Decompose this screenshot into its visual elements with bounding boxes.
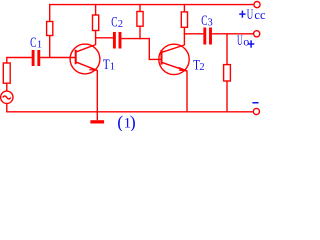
- wire RL to rail: [226, 81, 228, 113]
- wire T1 collector up: [95, 37, 97, 45]
- wire top +Ucc rail: [49, 4, 253, 6]
- capacitor C1 right plate: [37, 50, 40, 66]
- svg-text:1: 1: [37, 40, 42, 51]
- wire R3 top lead: [139, 4, 141, 12]
- capacitor C1 left plate: [32, 50, 35, 66]
- svg-text:C: C: [111, 14, 117, 30]
- transistor T1 emitter diagonal: [76, 62, 97, 70]
- transistor T2 emitter arrow: [179, 68, 188, 71]
- wire T2 collector up: [183, 33, 185, 45]
- wire source to rail: [6, 104, 8, 113]
- transistor T2 collector diagonal: [162, 45, 184, 52]
- wire R4 top lead: [183, 4, 185, 12]
- ground bar: [90, 120, 104, 123]
- svg-text:(: (: [117, 112, 123, 131]
- wire C3 to Uo terminal: [212, 33, 253, 35]
- wire rail corner to R1: [49, 4, 51, 22]
- svg-text:3: 3: [208, 18, 213, 29]
- svg-text:U: U: [237, 33, 243, 49]
- resistor Rs: [3, 63, 10, 83]
- transistor T1 circle: [70, 44, 100, 74]
- svg-text:o: o: [243, 35, 249, 49]
- terminal output negative: [253, 108, 259, 114]
- wire R1 to base node: [49, 36, 51, 59]
- wire C2 to elbow: [121, 39, 161, 60]
- transistor T1 collector diagonal: [76, 45, 95, 52]
- resistor RL: [224, 65, 231, 81]
- wire T2 emitter down: [186, 71, 188, 113]
- wire T1 emitter down: [96, 70, 98, 120]
- wire output node to C3: [184, 33, 203, 35]
- wire R3 to T2 base node: [139, 26, 141, 39]
- wire input node to C1: [7, 57, 32, 59]
- resistor R2: [93, 15, 99, 31]
- transistor T1 base bar: [75, 50, 77, 64]
- resistor R1: [47, 22, 53, 36]
- wire source branch top: [6, 57, 8, 63]
- wire R2 top lead: [95, 4, 97, 15]
- svg-text:cc: cc: [254, 8, 266, 22]
- source V1 sine: [3, 96, 11, 99]
- source V1 circle: [1, 91, 13, 103]
- label plus of Uo: [248, 40, 254, 47]
- terminal Uo: [254, 31, 260, 37]
- label plus of Ucc: [239, 11, 245, 18]
- resistor R3: [137, 12, 143, 27]
- transistor T1 emitter arrow: [89, 67, 98, 70]
- capacitor C3 right plate: [209, 28, 212, 45]
- svg-text:C: C: [30, 35, 36, 51]
- transistor T2 emitter diagonal: [162, 63, 187, 71]
- terminal +Ucc: [254, 2, 260, 8]
- wire collector node to C2: [95, 37, 113, 39]
- transistor T2 circle: [159, 44, 189, 74]
- label minus: [252, 102, 258, 104]
- wire C1 to T1 base: [40, 57, 75, 59]
- wire R2 to collector node: [95, 31, 97, 39]
- wire RL top lead: [226, 34, 228, 65]
- svg-text:): ): [130, 112, 136, 131]
- wire bottom ground rail: [7, 111, 253, 113]
- svg-text:2: 2: [118, 19, 123, 30]
- resistor R4: [181, 12, 187, 27]
- svg-text:U: U: [247, 7, 254, 23]
- transistor T2 base bar: [161, 50, 163, 65]
- capacitor C2 right plate: [119, 32, 122, 49]
- svg-text:2: 2: [199, 62, 204, 73]
- wire R4 to output node: [183, 27, 185, 34]
- capacitor C3 left plate: [203, 28, 206, 45]
- wire Rs to source: [6, 83, 8, 91]
- svg-text:1: 1: [110, 62, 115, 73]
- capacitor C2 left plate: [113, 32, 116, 49]
